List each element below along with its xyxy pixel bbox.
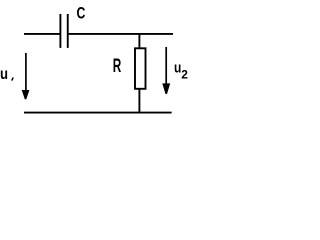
capacitor C right plate [67,14,69,48]
wire top-right segment [69,33,173,35]
arrow u1 head [22,90,30,99]
wire top-left segment [24,33,60,35]
label u2 [174,59,181,76]
capacitor C left plate [59,14,61,48]
arrow u2 stem [165,47,167,84]
resistor R body [135,48,146,89]
arrow u1 stem [25,53,27,91]
wire resistor top stub [138,34,140,48]
arrow u2 head [162,83,170,94]
svg-text:u: u [0,66,8,83]
label u1 [0,66,8,83]
wire resistor bottom stub [138,89,140,113]
label u1 subscript mark [12,78,13,81]
svg-text:R: R [113,56,122,76]
label R [113,56,122,76]
svg-text:2: 2 [181,68,188,82]
svg-text:C: C [77,5,86,23]
label C [77,5,86,23]
svg-text:u: u [174,59,181,76]
wire bottom rail [24,112,172,114]
